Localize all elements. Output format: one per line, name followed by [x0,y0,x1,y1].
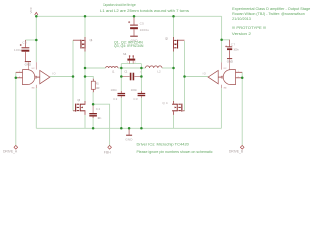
svg-text:C2: C2 [113,97,118,101]
svg-text:Capacitors should be film type: Capacitors should be film type [103,3,136,7]
svg-text:DRIVE_B: DRIVE_B [229,150,244,154]
svg-text:SJ1: SJ1 [123,52,127,56]
svg-text:GND: GND [31,88,35,90]
wire L1 to box [118,67,121,69]
svg-text:10R: 10R [96,87,100,90]
wire L2 to right drain [162,67,174,69]
svg-text:Rowan Wilson (TBJ) - Twitter:: Rowan Wilson (TBJ) - Twitter: @rowanwils… [232,12,305,16]
wire filter box right vertical to C3 and rail [140,64,142,92]
wire right VCC drop to driver IC2 [221,16,223,62]
svg-text:C5: C5 [140,21,145,25]
svg-text:Q4: Q4 [162,101,168,105]
capacitor C6 [14,40,29,61]
wire C4 to rail [92,118,94,129]
wire VCC top rail [36,15,221,17]
node DRIVE_B pinhead [229,145,244,153]
wire R1 to C4 [92,92,94,105]
capacitor C4 [89,105,101,120]
transistor Q1 [73,37,93,52]
svg-text:Version 2: Version 2 [232,32,251,36]
wire output node to L1 [85,67,106,69]
svg-text:Q2: Q2 [77,98,80,102]
inductor L2 [145,66,162,74]
wire right driver to bottom rail [220,88,222,128]
svg-text:100n: 100n [233,47,239,51]
wire node DRIVE_A vertical [15,72,17,146]
transistor Q3 [165,36,185,51]
svg-text:DRIVE_A: DRIVE_A [3,150,18,154]
svg-text:Experimental Class D amplifier: Experimental Class D amplifier - Output … [232,7,310,11]
op-amp IC1 buffer triangle [36,62,55,88]
svg-text:Q1: Q1 [90,38,93,42]
wire C6 branch [25,39,36,41]
svg-text:!!! PROTOTYPE !!!: !!! PROTOTYPE !!! [232,26,267,30]
svg-text:C1: C1 [124,70,128,74]
capacitor C5 [128,16,149,35]
capacitor C2 [111,88,126,101]
ground below C7 / driver IC2 gnd [227,58,234,69]
svg-text:L1 and L2 are 25mm toroids wou: L1 and L2 are 25mm toroids wound with 7 … [100,9,189,13]
svg-text:IO: IO [52,71,55,75]
svg-text:C7: C7 [231,43,236,47]
svg-text:21/10/2013: 21/10/2013 [232,17,251,21]
wire right driver output [185,76,209,78]
wire left VCC drop to driver IC1 [35,16,37,62]
ground on bottom rail [125,128,133,141]
wire filter box top edge [121,63,141,65]
transistor Q4 [162,101,184,115]
svg-text:IO: IO [203,71,206,75]
svg-text:1000u: 1000u [140,28,150,32]
wire snubber branch from drain [85,77,93,80]
wire right gate drive vertical [184,41,186,111]
svg-text:C3: C3 [133,97,138,101]
wire right half-bridge drain vertical [173,16,175,38]
capacitor C7 [225,40,239,58]
resistor R1 [91,79,99,92]
wire filter box left vertical to C2 and rail [120,64,122,92]
svg-text:GND: GND [227,60,234,64]
wire C7 branch [222,39,230,41]
wire across filter box [121,67,141,69]
wire left gate drive vertical [72,40,74,111]
node DRIVE_A pinhead [3,145,18,153]
svg-text:VCC: VCC [29,6,33,13]
svg-text:C6: C6 [22,40,27,44]
svg-text:Please ignore pin numbers show: Please ignore pin numbers shown on schem… [137,150,213,154]
capacitor C3 [131,88,146,101]
wire FBH tap [93,104,110,146]
svg-text:FBH: FBH [104,151,112,155]
wire GND bottom rail [36,127,221,129]
capacitor C1 [121,70,142,81]
wire left half-bridge drain vertical [84,16,86,38]
svg-text:Q3, Q4: IRF9Z34N: Q3, Q4: IRF9Z34N [114,44,144,48]
svg-text:VCC: VCC [223,68,227,70]
op-amp IC1 nand gate [16,68,40,90]
op-amp IC2 nand gate (mirrored) [218,68,242,90]
inductor L1 [106,66,118,73]
op-amp IC2 buffer triangle (mirrored) [203,62,222,88]
svg-text:Q3: Q3 [165,36,168,40]
wire node DRIVE_B vertical [241,72,243,146]
svg-text:Driver ICs: Microchip TC4420: Driver ICs: Microchip TC4420 [137,143,189,147]
node FBH pinhead [104,145,112,154]
svg-text:10n: 10n [97,116,101,120]
svg-text:GND: GND [223,88,227,90]
ground below C5 [130,36,138,43]
power VCC symbol [29,6,38,15]
svg-text:100n: 100n [131,88,138,92]
svg-text:100u: 100u [14,48,22,52]
transistor Q2 [73,98,85,115]
svg-text:100n: 100n [111,88,118,92]
wire box to L2 [141,67,145,69]
wire left driver output [50,76,73,78]
wire left driver to bottom rail [35,88,37,128]
svg-text:VCC: VCC [31,68,35,70]
svg-text:C4: C4 [96,107,101,111]
svg-text:L2: L2 [157,70,161,74]
svg-text:GND: GND [125,138,133,142]
svg-text:L1: L1 [112,69,115,73]
ground below C6 / driver IC1 gnd [25,61,32,69]
jumper SJ1 [123,52,137,64]
